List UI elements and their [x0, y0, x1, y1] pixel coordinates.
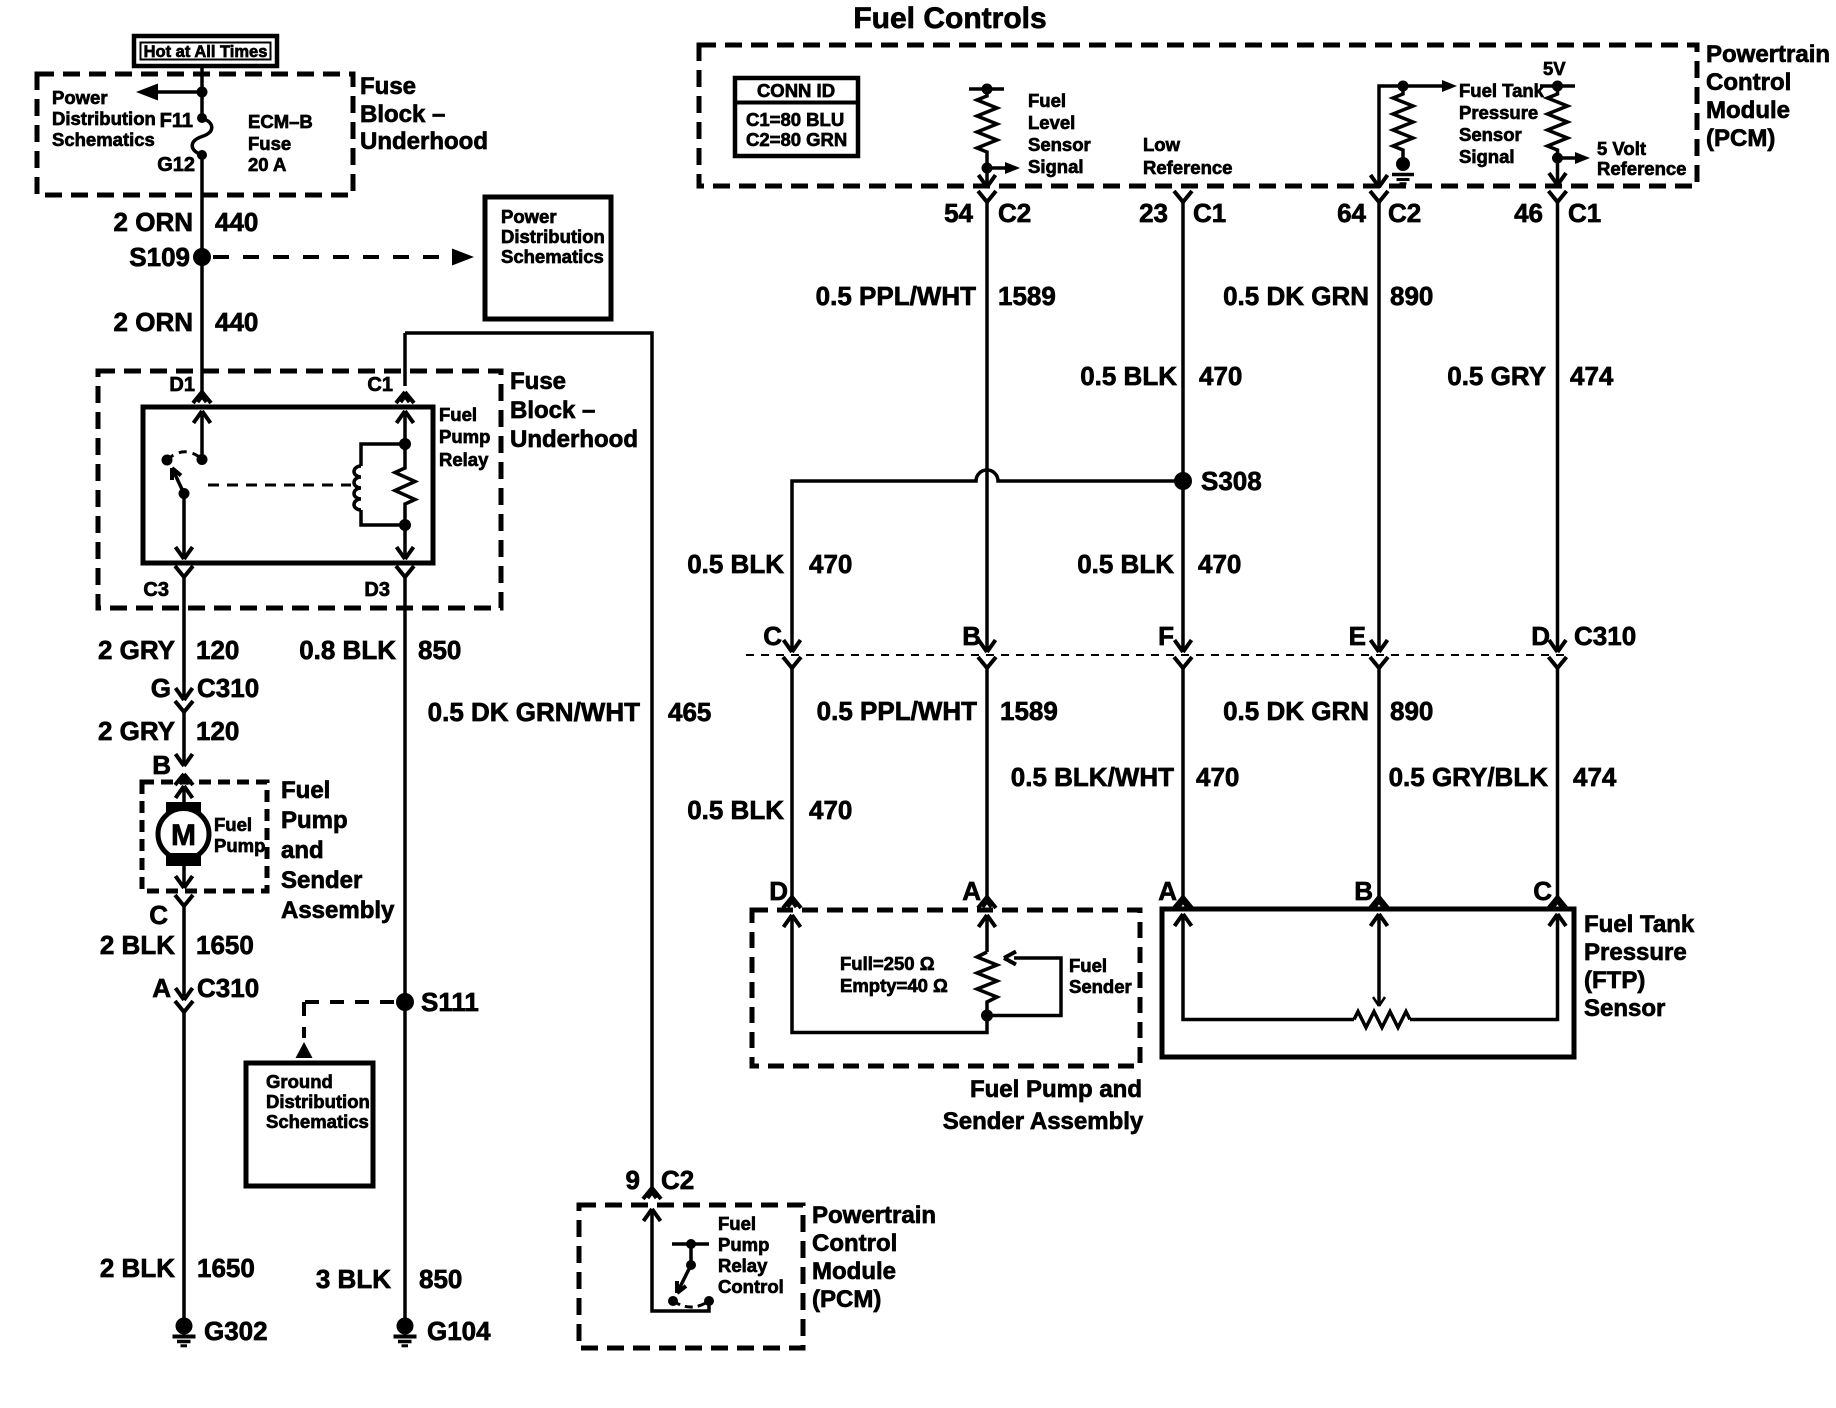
svg-text:Level: Level	[1028, 112, 1075, 133]
svg-text:0.5 BLK: 0.5 BLK	[687, 549, 784, 579]
svg-text:C1=80 BLU: C1=80 BLU	[746, 109, 844, 130]
svg-text:474: 474	[1573, 762, 1617, 792]
svg-text:890: 890	[1390, 281, 1433, 311]
svg-text:S308: S308	[1201, 466, 1262, 496]
svg-text:S109: S109	[129, 242, 190, 272]
svg-text:0.5 DK GRN: 0.5 DK GRN	[1223, 281, 1369, 311]
wire: S308 branch to C310 C (with hop over 54 wire)	[792, 470, 1183, 652]
connector (female) at PCM pin 23	[1174, 191, 1192, 202]
svg-text:Fuel Controls: Fuel Controls	[853, 2, 1046, 35]
inline connector C310 row (dashed separator)	[746, 654, 1565, 656]
svg-text:B: B	[1354, 876, 1373, 906]
fuel tank pressure sensor solid box	[1162, 909, 1574, 1057]
svg-text:5 Volt: 5 Volt	[1597, 138, 1646, 159]
reference box: Ground Distribution Schematics	[246, 1063, 373, 1186]
svg-text:0.5 PPL/WHT: 0.5 PPL/WHT	[816, 281, 976, 311]
wire: 0.5 PPL/WHT 1589 from pin 54 to C310 B	[985, 202, 989, 652]
svg-text:Fuse: Fuse	[248, 133, 291, 154]
svg-text:1589: 1589	[1000, 696, 1058, 726]
svg-text:9: 9	[626, 1165, 640, 1195]
svg-text:46: 46	[1514, 198, 1543, 228]
svg-text:Fuel Tank: Fuel Tank	[1459, 80, 1545, 101]
svg-text:20 A: 20 A	[248, 154, 286, 175]
relay switch throw contact	[162, 455, 173, 466]
svg-text:Module: Module	[1706, 97, 1790, 124]
svg-text:Pump: Pump	[214, 835, 265, 856]
wire: 0.5 BLK 470 from pin 23 to S308	[1181, 202, 1185, 481]
svg-text:Schematics: Schematics	[501, 246, 604, 267]
wire: 0.5 DK GRN 890 from pin 64 to C310 E	[1377, 202, 1381, 652]
sender D entry arrow	[792, 915, 987, 1033]
svg-text:B: B	[962, 621, 981, 651]
svg-text:Power: Power	[501, 206, 557, 227]
svg-text:2 GRY: 2 GRY	[98, 635, 175, 665]
svg-text:Fuse: Fuse	[360, 73, 416, 100]
PCM internal: 5V reference resistor	[1540, 58, 1590, 185]
svg-text:D1: D1	[169, 374, 195, 396]
wire: low reference continues from S308 to C310 F	[1181, 481, 1185, 652]
junction node on hot feed	[197, 87, 208, 98]
svg-text:C: C	[1533, 876, 1552, 906]
svg-text:F11: F11	[160, 110, 193, 132]
fuse F11/G12 ECM-B Fuse 20 A	[192, 113, 212, 160]
fuel pump relay control driver (switch) inside PCM	[644, 1209, 715, 1311]
svg-text:54: 54	[944, 198, 973, 228]
svg-text:A: A	[1158, 876, 1177, 906]
svg-text:Power: Power	[52, 87, 108, 108]
svg-text:0.5 PPL/WHT: 0.5 PPL/WHT	[817, 696, 977, 726]
svg-text:0.5 BLK: 0.5 BLK	[1080, 361, 1177, 391]
svg-text:D: D	[769, 876, 788, 906]
svg-text:Powertrain: Powertrain	[812, 1202, 936, 1229]
svg-text:Block –: Block –	[360, 101, 445, 128]
svg-text:C310: C310	[1574, 621, 1636, 651]
inline connector C310 B	[978, 640, 996, 668]
svg-text:Signal: Signal	[1028, 156, 1084, 177]
svg-text:0.5 DK GRN: 0.5 DK GRN	[1223, 696, 1369, 726]
svg-text:Distribution: Distribution	[266, 1091, 370, 1112]
svg-text:2 BLK: 2 BLK	[100, 930, 175, 960]
PCM internal: FTP bias resistor to ground	[1392, 86, 1414, 184]
wire: 0.8 BLK 850 / 3 BLK 850 from relay D3 through S111 to G104	[403, 577, 407, 1320]
svg-text:5V: 5V	[1543, 58, 1566, 79]
svg-text:C310: C310	[197, 973, 259, 1003]
wire: 0.5 GRY/BLK 474 from C310 D to FTP C	[1556, 668, 1560, 897]
svg-text:ECM–B: ECM–B	[248, 111, 313, 132]
fuel pump relay solid box	[143, 407, 433, 563]
fuel pump and sender assembly dashed box (sender)	[752, 910, 1140, 1066]
svg-text:and: and	[281, 837, 324, 864]
fuse block underhood dashed box (top)	[37, 74, 353, 195]
splice S308 on low reference wire	[1174, 472, 1192, 490]
svg-text:2 ORN: 2 ORN	[114, 307, 193, 337]
svg-text:Assembly: Assembly	[281, 897, 395, 924]
svg-text:M: M	[171, 819, 196, 852]
svg-text:A: A	[152, 973, 171, 1003]
svg-text:2 BLK: 2 BLK	[100, 1253, 175, 1283]
dashed reference arrow from S109 to Power Distribution Schematics box	[213, 249, 474, 266]
svg-text:Low: Low	[1143, 134, 1181, 155]
wire: coil return to D3	[403, 525, 407, 559]
wire: 2 BLK 1650 from pump C to C310 A	[182, 906, 186, 996]
svg-text:Distribution: Distribution	[501, 226, 605, 247]
svg-text:A: A	[962, 876, 981, 906]
svg-text:Schematics: Schematics	[52, 129, 155, 150]
fuel pump motor M	[158, 786, 209, 888]
svg-text:1589: 1589	[998, 281, 1056, 311]
svg-text:Reference: Reference	[1143, 157, 1232, 178]
svg-text:Ground: Ground	[266, 1071, 333, 1092]
wire: relay switch output to C3	[182, 494, 186, 560]
svg-text:C: C	[149, 900, 168, 930]
svg-text:120: 120	[196, 635, 239, 665]
svg-text:Underhood: Underhood	[360, 128, 488, 155]
wire: arrow to power distribution schematics (left)	[150, 90, 202, 94]
svg-text:G12: G12	[157, 154, 195, 176]
svg-text:470: 470	[809, 795, 852, 825]
svg-text:470: 470	[1196, 762, 1239, 792]
svg-text:0.5 GRY/BLK: 0.5 GRY/BLK	[1389, 762, 1549, 792]
PCM internal: fuel tank pressure signal branch	[1371, 80, 1458, 187]
svg-text:Sensor: Sensor	[1459, 124, 1522, 145]
svg-text:E: E	[1349, 621, 1366, 651]
svg-text:Fuel: Fuel	[214, 814, 252, 835]
svg-text:Pressure: Pressure	[1459, 102, 1538, 123]
fuse block underhood dashed box (relay)	[98, 371, 501, 608]
connector (female) at PCM pin 54	[978, 191, 996, 202]
svg-text:Underhood: Underhood	[510, 426, 638, 453]
wire: 0.5 BLK 470 from C310 C to sender D	[790, 668, 794, 897]
svg-text:440: 440	[215, 207, 258, 237]
svg-text:0.5 DK GRN/WHT: 0.5 DK GRN/WHT	[428, 697, 640, 727]
inline connector C310 D	[1549, 640, 1567, 668]
connector at FTP B	[1370, 897, 1388, 908]
svg-text:(PCM): (PCM)	[812, 1286, 881, 1313]
svg-text:G302: G302	[204, 1316, 268, 1346]
connector at FTP C	[1549, 897, 1567, 908]
svg-text:1650: 1650	[196, 930, 254, 960]
svg-text:120: 120	[196, 716, 239, 746]
svg-text:Fuel: Fuel	[1069, 955, 1107, 976]
svg-text:(PCM): (PCM)	[1706, 125, 1775, 152]
splice S109	[193, 248, 211, 266]
node: coil top junction	[399, 438, 411, 450]
powertrain control module dashed box (top)	[699, 45, 1697, 186]
wire: hot feed from Hot at All Times into fuse block	[200, 66, 204, 118]
relay switch movable arm	[172, 468, 190, 499]
svg-text:G104: G104	[427, 1316, 491, 1346]
node: coil bottom junction	[399, 519, 411, 531]
connector at FTP A	[1174, 897, 1192, 908]
svg-text:B: B	[152, 750, 171, 780]
wire: relay coil feed from C1	[403, 411, 407, 444]
connector (female) at PCM pin 9	[643, 1188, 661, 1199]
svg-text:Module: Module	[812, 1258, 896, 1285]
svg-text:Schematics: Schematics	[266, 1111, 369, 1132]
svg-text:C3: C3	[143, 579, 169, 601]
svg-text:0.5 BLK: 0.5 BLK	[1077, 549, 1174, 579]
svg-text:Sender Assembly: Sender Assembly	[943, 1108, 1144, 1135]
svg-text:Fuel: Fuel	[718, 1213, 756, 1234]
wire: 0.5 PPL/WHT 1589 from C310 B to sender A	[985, 668, 989, 897]
svg-text:C1: C1	[1568, 198, 1601, 228]
svg-text:Sensor: Sensor	[1028, 134, 1091, 155]
wire: 0.5 DK GRN 890 from C310 E to FTP B	[1377, 668, 1381, 897]
connector (female) at PCM pin 46	[1549, 191, 1567, 202]
svg-text:470: 470	[1199, 361, 1242, 391]
svg-text:0.5 BLK/WHT: 0.5 BLK/WHT	[1011, 762, 1174, 792]
svg-text:Sender: Sender	[1069, 976, 1132, 997]
svg-text:Pump: Pump	[439, 426, 490, 447]
wire: 0.5 BLK/WHT 470 from C310 F to FTP A	[1181, 668, 1185, 897]
svg-text:Relay: Relay	[718, 1255, 768, 1276]
fuel pump and sender assembly dashed box (pump)	[142, 782, 267, 891]
svg-text:S111: S111	[421, 987, 479, 1017]
inline connector C310 (A)	[175, 988, 193, 1012]
svg-text:C: C	[763, 621, 782, 651]
dashed reference from S111 to Ground Distribution Schematics	[296, 1002, 395, 1058]
wire: 2 GRY 120 from C3 to C310 connector G	[182, 577, 186, 700]
fuel sender variable resistor	[977, 952, 1061, 1022]
svg-text:Fuel Tank: Fuel Tank	[1584, 911, 1695, 938]
svg-text:Powertrain: Powertrain	[1706, 41, 1830, 68]
connector (female) below fuel pump C	[175, 895, 193, 906]
svg-text:G: G	[151, 673, 171, 703]
splice S111	[396, 993, 414, 1011]
relay switch common entry (from D1)	[200, 411, 204, 459]
svg-text:465: 465	[668, 697, 711, 727]
svg-text:64: 64	[1337, 198, 1366, 228]
svg-text:Signal: Signal	[1459, 146, 1515, 167]
PCM internal: fuel level sensor pull-up resistor	[969, 84, 1020, 188]
svg-text:1650: 1650	[197, 1253, 255, 1283]
svg-text:C2: C2	[1388, 198, 1421, 228]
svg-text:Sender: Sender	[281, 867, 362, 894]
svg-text:C2: C2	[661, 1165, 694, 1195]
wire: 0.5 DK GRN/WHT 465 from relay C1 to PCM pin 9 C2	[405, 333, 652, 1188]
connector (female) at D1	[193, 392, 211, 403]
svg-text:23: 23	[1139, 198, 1168, 228]
wire: 0.5 GRY 474 from pin 46 to C310 D	[1556, 202, 1560, 652]
svg-text:Relay: Relay	[439, 449, 489, 470]
relay coil	[354, 444, 405, 525]
svg-text:440: 440	[215, 307, 258, 337]
inline connector C310 F	[1174, 640, 1192, 668]
svg-text:2 ORN: 2 ORN	[114, 207, 193, 237]
svg-text:Pressure: Pressure	[1584, 939, 1687, 966]
svg-text:470: 470	[1198, 549, 1241, 579]
svg-text:C2: C2	[998, 198, 1031, 228]
svg-text:D3: D3	[364, 579, 390, 601]
connector (female) at PCM pin 64	[1370, 191, 1388, 202]
svg-text:Control: Control	[1706, 69, 1791, 96]
svg-text:C1: C1	[1193, 198, 1226, 228]
svg-text:850: 850	[419, 1264, 462, 1294]
svg-text:850: 850	[418, 635, 461, 665]
svg-text:Fuel Pump and: Fuel Pump and	[970, 1076, 1142, 1103]
svg-text:C310: C310	[197, 673, 259, 703]
inline connector C310 C	[783, 640, 801, 668]
svg-text:470: 470	[809, 549, 852, 579]
svg-text:Empty=40 Ω: Empty=40 Ω	[840, 975, 948, 996]
connector (female) at D3	[396, 566, 414, 577]
connector (female) at C3	[175, 566, 193, 577]
svg-text:(FTP): (FTP)	[1584, 967, 1645, 994]
svg-text:Control: Control	[718, 1276, 784, 1297]
inline connector C310 E	[1370, 640, 1388, 668]
svg-text:474: 474	[1570, 361, 1614, 391]
svg-text:D: D	[1531, 621, 1550, 651]
wire: 2 BLK 1650 from C310 A to G302	[182, 1012, 186, 1320]
svg-text:Pump: Pump	[281, 807, 348, 834]
reference box: Power Distribution Schematics	[485, 197, 611, 319]
svg-text:2 GRY: 2 GRY	[98, 716, 175, 746]
connector at sender A	[978, 897, 996, 908]
svg-text:Sensor: Sensor	[1584, 995, 1665, 1022]
svg-text:Hot at All Times: Hot at All Times	[144, 43, 268, 61]
relay coil parallel resistor	[395, 444, 415, 525]
svg-text:Distribution: Distribution	[52, 108, 156, 129]
svg-text:Fuel: Fuel	[281, 777, 330, 804]
FTP potentiometer element	[1175, 914, 1567, 1028]
connector (female) at C1	[396, 392, 414, 403]
svg-text:C2=80 GRN: C2=80 GRN	[746, 129, 847, 150]
mechanical link (dashed) between switch and coil	[208, 484, 351, 487]
svg-text:Block –: Block –	[510, 397, 595, 424]
sender A entry arrow	[985, 915, 989, 952]
svg-text:Reference: Reference	[1597, 158, 1686, 179]
inline connector C310 (G)	[175, 688, 193, 712]
svg-text:3 BLK: 3 BLK	[316, 1264, 391, 1294]
svg-text:F: F	[1158, 621, 1174, 651]
wire: 2 ORN 440 segment from G12 to S109 to fuse block relay D1	[200, 155, 204, 392]
wire: 2 GRY 120 from C310 to fuel pump B	[182, 712, 186, 766]
ground G104	[394, 1316, 492, 1346]
svg-text:0.5 BLK: 0.5 BLK	[687, 795, 784, 825]
powertrain control module dashed box (bottom)	[579, 1205, 803, 1348]
svg-text:Full=250 Ω: Full=250 Ω	[840, 953, 935, 974]
connector at sender D	[783, 897, 801, 908]
inline connector at fuel pump B	[175, 754, 193, 785]
svg-text:0.8 BLK: 0.8 BLK	[299, 635, 396, 665]
ground G302	[173, 1316, 268, 1346]
svg-text:CONN ID: CONN ID	[757, 80, 835, 101]
svg-text:Fuel: Fuel	[1028, 90, 1066, 111]
relay switch dashed throw arc	[167, 452, 202, 460]
svg-text:Fuse: Fuse	[510, 368, 566, 395]
svg-text:890: 890	[1390, 696, 1433, 726]
svg-text:Control: Control	[812, 1230, 897, 1257]
svg-text:0.5 GRY: 0.5 GRY	[1447, 361, 1546, 391]
CONN ID table	[735, 78, 858, 156]
svg-text:C1: C1	[367, 374, 393, 396]
svg-text:Fuel: Fuel	[439, 404, 477, 425]
label box: Hot at All Times	[134, 36, 277, 66]
svg-text:Pump: Pump	[718, 1234, 769, 1255]
